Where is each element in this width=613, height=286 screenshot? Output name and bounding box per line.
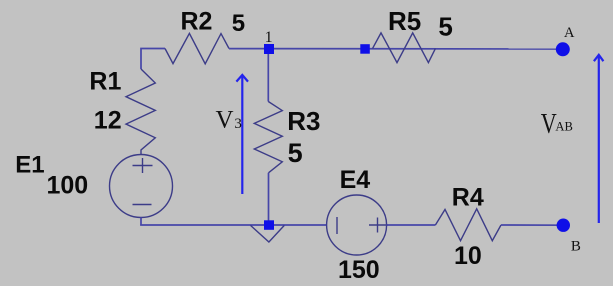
svg-text:R2: R2 (181, 8, 213, 36)
svg-text:12: 12 (94, 107, 122, 135)
svg-text:R5: R5 (388, 6, 421, 36)
resistor R2 (165, 33, 229, 63)
resistor R5 (373, 33, 436, 63)
svg-text:5: 5 (288, 138, 303, 168)
svg-text:R3: R3 (287, 106, 320, 136)
svg-text:1: 1 (265, 29, 273, 46)
voltage source E4 (327, 195, 387, 255)
svg-text:150: 150 (338, 256, 380, 284)
svg-text:10: 10 (454, 242, 482, 270)
arrow V3 (236, 75, 248, 194)
svg-text:R4: R4 (452, 184, 484, 212)
node B terminal dot (557, 219, 570, 232)
E4 plus sign (369, 218, 388, 233)
wire node1 to R3 (267, 49, 269, 102)
wire R4 to node B (501, 224, 563, 226)
svg-text:5: 5 (232, 10, 245, 37)
ground marker (251, 225, 285, 242)
E4 minus bar (336, 217, 338, 234)
svg-text:E1: E1 (15, 152, 44, 179)
svg-text:A: A (564, 25, 575, 41)
svg-text:E4: E4 (340, 166, 371, 194)
wire top-left corner (141, 49, 165, 70)
svg-text:R1: R1 (89, 68, 121, 96)
node A terminal dot (556, 42, 570, 56)
svg-text:AB: AB (555, 118, 573, 133)
wire E1 bottom lead (140, 218, 142, 226)
wire R3 to bottom junction (268, 173, 270, 225)
svg-text:100: 100 (47, 172, 89, 200)
voltage source E1 (110, 155, 173, 218)
wire top rail (229, 48, 563, 50)
junction square top middle (360, 44, 370, 54)
wire bottom rail (140, 224, 326, 226)
resistor R4 (435, 209, 501, 241)
junction square bottom (264, 220, 274, 230)
resistor R3 (254, 102, 282, 173)
node 1 junction square (264, 44, 274, 54)
svg-text:5: 5 (438, 11, 452, 41)
svg-text:B: B (571, 238, 581, 254)
resistor R1 (126, 69, 155, 155)
E1 plus sign (133, 158, 153, 173)
arrow VAB (594, 55, 604, 223)
E1 minus sign (133, 204, 152, 206)
wire E4 to R4 (387, 224, 436, 226)
